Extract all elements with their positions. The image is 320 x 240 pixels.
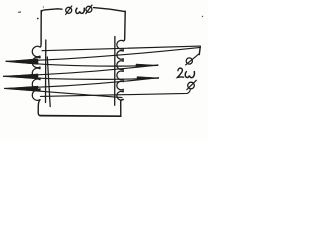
wire (bottom) xyxy=(40,115,121,118)
terminal (output bottom, circle with slash) xyxy=(188,82,195,89)
wire (top-right corner down to output terminal slash) xyxy=(199,46,200,54)
scan speck (dot at upper right margin) xyxy=(202,16,203,17)
wire (output winding pass: left turn V1 to right turn V1) xyxy=(6,61,158,66)
core (left, second bar, slanted) xyxy=(47,57,50,107)
label 2ω (output frequency, handwritten "2") xyxy=(178,68,184,77)
wire (output winding pass: left turn V2 to right turn V2) xyxy=(4,76,159,79)
node (left hairpin turn V3, filled point) xyxy=(5,86,39,91)
core (right, vertical bar) xyxy=(114,37,116,106)
wire (output winding pass: left turn V3 down toward W2 bottom) xyxy=(5,88,123,97)
node (left hairpin turn V1, filled point) xyxy=(6,59,38,64)
wire (top, from input terminal 2 to right corner) xyxy=(94,8,126,12)
terminal (input left, circle with slash) xyxy=(66,7,72,13)
scan speck (dash at upper left margin) xyxy=(18,11,21,13)
winding W2 (right core coil, 6 turns) xyxy=(117,40,123,100)
terminal (output top, circle with slash) xyxy=(186,58,192,64)
core (left, vertical bar) xyxy=(45,40,47,103)
wire (lower-right corner up to winding W2 bottom) xyxy=(121,100,124,117)
label 2ω (output frequency, handwritten "ω") xyxy=(185,72,194,78)
node (left hairpin turn V2, filled point) xyxy=(4,74,39,79)
terminal (input right, circle with slash) xyxy=(86,6,92,12)
node (right hairpin turn V1, filled point) xyxy=(136,64,158,67)
wire (output winding pass: left turn V1 up-arm to top-right corner) xyxy=(6,47,200,61)
wire (left winding bottom to lower-left corner) xyxy=(38,100,41,116)
wire (top, from left corner to input terminal 1) xyxy=(41,9,62,14)
wire (output winding pass: W1 top to top-right corner) xyxy=(42,46,200,51)
wire (left vertical, corner down to winding W1) xyxy=(40,11,41,47)
scan speck (dot near top-left inside corner) xyxy=(37,18,39,20)
wire (output winding pass: right turn V2 to left turn V3) xyxy=(5,78,159,89)
wire (output winding pass: right turn V1 to left turn V2) xyxy=(4,65,158,76)
winding W1 (left core coil, 5 turns) xyxy=(32,46,40,100)
node (right hairpin turn V2, filled point) xyxy=(137,77,159,80)
label ω (input frequency, handwritten) xyxy=(76,8,85,13)
wire (right vertical, corner down to winding W2) xyxy=(123,11,125,41)
scan speck (dot above top wire) xyxy=(43,6,44,7)
wire (output winding pass: W1 bottom to output terminal hook) xyxy=(41,90,191,97)
